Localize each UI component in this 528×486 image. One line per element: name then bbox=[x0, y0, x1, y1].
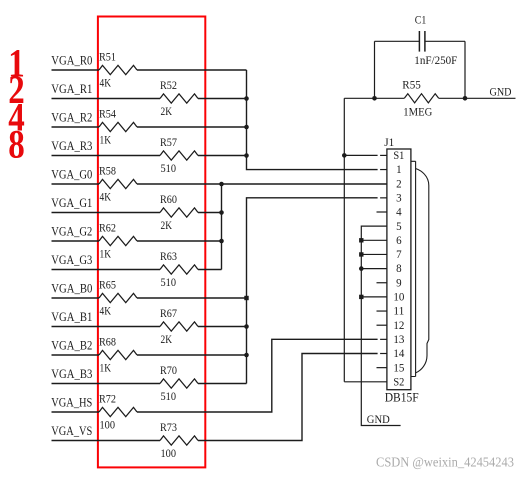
wire VGA_G1 lead-in bbox=[52, 212, 161, 214]
wire VGA_HS lead-in bbox=[52, 411, 100, 413]
svg-text:4K: 4K bbox=[100, 305, 112, 317]
resistor R67 2K bbox=[160, 308, 198, 346]
junction shell S1 bbox=[342, 153, 347, 158]
svg-text:4K: 4K bbox=[100, 77, 112, 89]
wire VGA_R0 lead-in bbox=[52, 69, 100, 71]
svg-text:J1: J1 bbox=[384, 135, 394, 149]
svg-text:VGA_G1: VGA_G1 bbox=[51, 196, 92, 210]
capacitor C1 1nF/250F bbox=[375, 13, 466, 68]
wire G0 output across to pin 2 bbox=[137, 183, 387, 185]
resistor R57 510 bbox=[160, 137, 198, 175]
svg-text:1nF/250F: 1nF/250F bbox=[414, 55, 457, 67]
wire B3 output to blue bus bbox=[198, 383, 247, 385]
wire VGA_R1 lead-in bbox=[52, 98, 161, 100]
svg-text:8: 8 bbox=[396, 263, 402, 275]
svg-text:CSDN @weixin_42454243: CSDN @weixin_42454243 bbox=[376, 455, 514, 470]
wire pin8 to gnd tie bbox=[361, 268, 387, 270]
wire blue bus riser to pin 3 bbox=[247, 198, 378, 384]
junction R55 left node bbox=[372, 96, 377, 101]
svg-text:13: 13 bbox=[393, 334, 404, 346]
svg-text:4: 4 bbox=[396, 207, 402, 219]
wire VGA_VS lead-in bbox=[52, 440, 161, 442]
junction gnd tie pin8 bbox=[359, 266, 364, 271]
svg-text:VGA_B1: VGA_B1 bbox=[51, 310, 92, 324]
junction blue bus B0 bbox=[244, 296, 248, 300]
resistor R68 1K bbox=[99, 337, 137, 375]
svg-text:DB15F: DB15F bbox=[385, 391, 419, 405]
svg-text:R73: R73 bbox=[160, 422, 177, 434]
svg-text:1: 1 bbox=[396, 164, 402, 176]
pin 15 stub (n.c.) bbox=[377, 367, 387, 369]
svg-text:VGA_R1: VGA_R1 bbox=[51, 82, 92, 96]
junction red bus R2 bbox=[244, 125, 249, 130]
junction green bus G0 bbox=[219, 182, 224, 187]
resistor R60 2K bbox=[160, 194, 198, 232]
svg-text:R55: R55 bbox=[402, 80, 421, 92]
wire G3 output to green bus bbox=[198, 269, 222, 271]
wire VGA_B3 lead-in bbox=[52, 383, 161, 385]
svg-text:R58: R58 bbox=[99, 166, 116, 178]
svg-text:510: 510 bbox=[161, 277, 177, 289]
wire R1 output to red bus bbox=[198, 98, 247, 100]
wire pin6 to gnd tie bbox=[361, 239, 387, 241]
svg-text:1K: 1K bbox=[100, 362, 112, 374]
svg-text:11: 11 bbox=[393, 306, 404, 318]
wire VGA_B0 lead-in bbox=[52, 297, 100, 299]
svg-text:VGA_R2: VGA_R2 bbox=[51, 110, 92, 124]
svg-text:S1: S1 bbox=[393, 150, 404, 162]
svg-text:3: 3 bbox=[396, 192, 402, 204]
svg-text:4K: 4K bbox=[100, 191, 112, 203]
wire VGA_G0 lead-in bbox=[52, 183, 100, 185]
wire R0 output to red bus bbox=[137, 69, 247, 71]
svg-text:7: 7 bbox=[396, 249, 402, 261]
wire VGA_B1 lead-in bbox=[52, 326, 161, 328]
svg-text:6: 6 bbox=[396, 235, 402, 247]
junction R55 right node bbox=[463, 96, 468, 101]
svg-text:2K: 2K bbox=[161, 106, 173, 118]
svg-text:R62: R62 bbox=[99, 223, 116, 235]
svg-text:S2: S2 bbox=[393, 376, 404, 388]
junction red bus R3 bbox=[244, 153, 249, 158]
svg-text:1K: 1K bbox=[100, 134, 112, 146]
svg-text:VGA_G0: VGA_G0 bbox=[51, 167, 92, 181]
svg-text:100: 100 bbox=[100, 419, 116, 431]
pin 4 stub (n.c.) bbox=[377, 211, 387, 213]
wire S2 stub bbox=[344, 381, 387, 383]
svg-text:VGA_VS: VGA_VS bbox=[51, 424, 92, 438]
wire pin10 to gnd tie bbox=[361, 296, 387, 298]
wire B2 output to blue bus bbox=[137, 354, 247, 356]
connector D-shell flange bbox=[411, 161, 416, 376]
pin 9 stub (n.c.) bbox=[377, 282, 387, 284]
wire VGA_HS to pin 13 bbox=[137, 339, 378, 412]
wire VGA_G2 lead-in bbox=[52, 240, 100, 242]
wire VGA_B2 lead-in bbox=[52, 354, 100, 356]
junction red bus R1 bbox=[244, 96, 249, 101]
pin 11 stub (n.c.) bbox=[377, 310, 387, 312]
svg-text:R52: R52 bbox=[160, 80, 177, 92]
wire G2 output to green bus bbox=[137, 240, 222, 242]
svg-text:R70: R70 bbox=[160, 365, 177, 377]
resistor R63 510 bbox=[160, 251, 198, 289]
svg-text:VGA_HS: VGA_HS bbox=[51, 395, 92, 409]
svg-text:14: 14 bbox=[393, 348, 404, 360]
svg-text:2: 2 bbox=[396, 178, 402, 190]
resistor R51 4K bbox=[99, 52, 137, 90]
svg-text:10: 10 bbox=[393, 292, 404, 304]
resistor R70 510 bbox=[160, 365, 198, 403]
svg-text:VGA_R0: VGA_R0 bbox=[51, 53, 92, 67]
svg-text:8: 8 bbox=[8, 122, 25, 167]
red highlight box around resistor network bbox=[98, 17, 205, 468]
svg-text:R54: R54 bbox=[99, 109, 116, 121]
red weight label digits 1 2 4 8 bbox=[8, 41, 25, 167]
wire R2 output to red bus bbox=[137, 126, 247, 128]
pin 12 stub (n.c.) bbox=[377, 324, 387, 326]
svg-text:VGA_R3: VGA_R3 bbox=[51, 139, 92, 153]
svg-text:C1: C1 bbox=[415, 13, 427, 27]
svg-text:R57: R57 bbox=[160, 137, 177, 149]
resistor R52 2K bbox=[160, 80, 198, 118]
svg-text:2K: 2K bbox=[161, 334, 173, 346]
svg-text:2K: 2K bbox=[161, 220, 173, 232]
wire G1 output to green bus bbox=[198, 212, 222, 214]
resistor R73 100 bbox=[160, 422, 198, 460]
wire green bus vertical bbox=[221, 184, 223, 270]
svg-text:1MEG: 1MEG bbox=[403, 107, 432, 119]
svg-text:R60: R60 bbox=[160, 194, 177, 206]
resistor R58 4K bbox=[99, 166, 137, 204]
svg-text:R72: R72 bbox=[99, 394, 116, 406]
resistor R62 1K bbox=[99, 223, 137, 261]
wire R55 node to shell vertical bbox=[344, 97, 374, 99]
wire VGA_R2 lead-in bbox=[52, 126, 100, 128]
resistor R54 1K bbox=[99, 109, 137, 147]
svg-text:GND: GND bbox=[490, 87, 512, 99]
svg-text:5: 5 bbox=[396, 221, 402, 233]
svg-text:R63: R63 bbox=[160, 251, 177, 263]
svg-text:R68: R68 bbox=[99, 337, 116, 349]
svg-text:510: 510 bbox=[161, 391, 177, 403]
svg-text:R51: R51 bbox=[99, 52, 116, 64]
svg-text:VGA_G3: VGA_G3 bbox=[51, 253, 92, 267]
wire B0 output to blue bus bbox=[137, 297, 247, 299]
wire S1 stub bbox=[344, 154, 377, 156]
connector J1 DB15F body bbox=[387, 149, 411, 390]
svg-text:VGA_B0: VGA_B0 bbox=[51, 281, 92, 295]
svg-text:VGA_G2: VGA_G2 bbox=[51, 224, 92, 238]
wire pin7 to gnd tie bbox=[361, 253, 387, 255]
net GND top right bbox=[465, 87, 516, 99]
wire B1 output to blue bus bbox=[198, 326, 247, 328]
wire R3 output to red bus bbox=[198, 155, 247, 157]
resistor R72 100 bbox=[99, 394, 137, 432]
junction blue bus B2 bbox=[244, 353, 249, 358]
wire pin5 to gnd tie bbox=[361, 226, 400, 425]
junction gnd tie pin10 bbox=[359, 295, 363, 299]
wire VGA_R3 lead-in bbox=[52, 155, 161, 157]
svg-text:GND: GND bbox=[367, 414, 390, 426]
svg-text:100: 100 bbox=[161, 448, 177, 460]
svg-text:VGA_B2: VGA_B2 bbox=[51, 338, 92, 352]
junction gnd tie pin6 bbox=[359, 238, 363, 242]
junction gnd tie pin7 bbox=[359, 252, 363, 256]
wire C1 right leg down bbox=[464, 41, 466, 98]
svg-text:9: 9 bbox=[396, 277, 402, 289]
svg-text:15: 15 bbox=[393, 362, 404, 374]
wire VGA_VS to pin 14 bbox=[198, 354, 378, 441]
svg-text:R67: R67 bbox=[160, 308, 177, 320]
wire VGA_G3 lead-in bbox=[52, 269, 161, 271]
svg-text:12: 12 bbox=[393, 320, 404, 332]
wire red bus down to pin 1 bbox=[247, 70, 378, 170]
svg-text:1K: 1K bbox=[100, 248, 112, 260]
svg-text:R65: R65 bbox=[99, 280, 116, 292]
wire shell vertical S1 to S2 bbox=[343, 98, 345, 382]
junction blue bus B1 bbox=[244, 324, 249, 329]
resistor R55 1MEG bbox=[375, 80, 466, 119]
junction green bus G1 bbox=[219, 210, 224, 215]
junction green bus G2 bbox=[219, 239, 224, 244]
resistor R65 4K bbox=[99, 280, 137, 318]
svg-text:510: 510 bbox=[161, 163, 177, 175]
wire C1 left leg down bbox=[374, 41, 376, 98]
svg-text:VGA_B3: VGA_B3 bbox=[51, 367, 92, 381]
